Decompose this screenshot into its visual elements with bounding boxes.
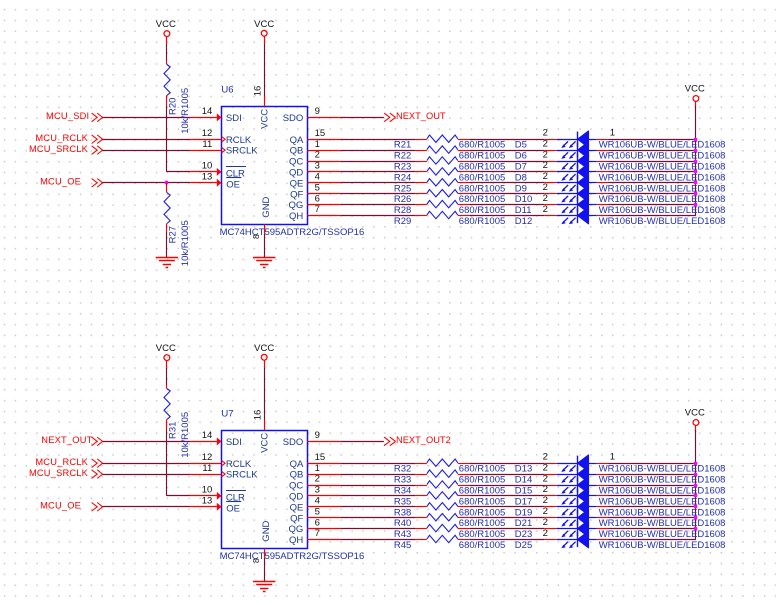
svg-text:2: 2: [315, 150, 320, 161]
svg-text:WR106UB-W/BLUE/LED1608: WR106UB-W/BLUE/LED1608: [599, 162, 726, 173]
pin 1 QB stub: [307, 139, 340, 151]
svg-text:9: 9: [315, 106, 320, 117]
svg-text:NEXT_OUT: NEXT_OUT: [396, 111, 446, 121]
svg-text:SDI: SDI: [226, 113, 242, 124]
LED D10 WR106UB-W/BLUE/LED1608: [515, 182, 726, 205]
resistor R26 680/R1005: [394, 190, 505, 206]
svg-text:680/R1005: 680/R1005: [459, 162, 505, 173]
svg-text:MCU_RCLK: MCU_RCLK: [35, 133, 88, 143]
junction (LED bus): [694, 516, 698, 520]
wire D11 to VCC bus: [609, 204, 696, 206]
svg-text:680/R1005: 680/R1005: [459, 151, 505, 162]
svg-text:D11: D11: [515, 205, 532, 216]
wire MCU_SRCLK: [102, 150, 189, 152]
wire VCC bus vertical: [695, 430, 697, 540]
pin name QC: [289, 157, 303, 168]
svg-text:680/R1005: 680/R1005: [459, 216, 505, 227]
svg-text:16: 16: [253, 410, 264, 421]
svg-text:2: 2: [543, 506, 548, 517]
svg-text:9: 9: [315, 430, 320, 441]
wire R22 to D6: [470, 150, 544, 152]
ground (R27): [156, 258, 178, 268]
junction (LED bus): [694, 138, 698, 142]
svg-text:WR106UB-W/BLUE/LED1608: WR106UB-W/BLUE/LED1608: [599, 140, 726, 151]
wire R29 to D12: [470, 215, 544, 217]
LED D17 WR106UB-W/BLUE/LED1608: [515, 484, 726, 507]
pin name RCLK: [226, 459, 252, 470]
pin name SRCLK: [226, 146, 258, 157]
resistor R43 680/R1005: [394, 524, 505, 540]
pin name QD: [289, 168, 303, 179]
svg-text:2: 2: [543, 473, 548, 484]
svg-text:2: 2: [543, 204, 548, 215]
pin 4 QE stub: [307, 172, 340, 183]
svg-text:D17: D17: [515, 496, 532, 507]
svg-text:680/R1005: 680/R1005: [459, 464, 505, 475]
svg-text:VCC: VCC: [685, 84, 705, 95]
svg-text:QE: QE: [290, 502, 304, 513]
svg-text:1: 1: [315, 463, 320, 474]
wire QB to R33: [340, 474, 415, 476]
svg-text:680/R1005: 680/R1005: [459, 540, 505, 551]
svg-text:10k/R1005: 10k/R1005: [180, 88, 191, 134]
wire pin 8 to ground: [264, 234, 266, 257]
svg-text:WR106UB-W/BLUE/LED1608: WR106UB-W/BLUE/LED1608: [599, 216, 726, 227]
pin 7 QH stub: [307, 528, 340, 539]
wire MCU_SRCLK: [102, 474, 189, 476]
wire D25 to VCC bus: [609, 539, 696, 541]
wire D8 to VCC bus: [609, 171, 696, 173]
svg-text:2: 2: [543, 462, 548, 473]
pin 6 QG stub: [307, 193, 340, 204]
pin 6 QG stub: [307, 517, 340, 528]
svg-text:11: 11: [202, 463, 212, 474]
pin 2 QC stub: [307, 150, 340, 162]
svg-text:WR106UB-W/BLUE/LED1608: WR106UB-W/BLUE/LED1608: [599, 205, 726, 216]
pin 3 QD stub: [307, 161, 340, 172]
svg-text:QH: QH: [289, 211, 303, 222]
svg-text:U6: U6: [221, 84, 233, 95]
svg-text:R31: R31: [167, 422, 178, 439]
svg-text:R20: R20: [167, 98, 178, 115]
wire R24 to D8: [470, 171, 544, 173]
junction (OE / pulldown): [165, 181, 169, 185]
svg-text:WR106UB-W/BLUE/LED1608: WR106UB-W/BLUE/LED1608: [599, 183, 726, 194]
pin name QH: [289, 535, 303, 546]
pin 8 GND stub: [252, 548, 265, 563]
LED D8 WR106UB-W/BLUE/LED1608: [515, 160, 726, 183]
pin 16 VCC stub: [253, 86, 265, 107]
svg-text:680/R1005: 680/R1005: [459, 194, 505, 205]
svg-text:SDO: SDO: [283, 113, 304, 124]
IC U6 MC74HCT595ADTR2G/TSSOP16: [220, 84, 365, 238]
wire R23 to D7: [470, 161, 544, 163]
svg-text:QF: QF: [290, 189, 303, 200]
pin 11 SRCLK stub: [190, 139, 226, 153]
junction (LED bus): [694, 494, 698, 498]
svg-text:R38: R38: [394, 507, 411, 518]
wire D23 to VCC bus: [609, 528, 696, 530]
wire QE to R25: [340, 182, 415, 184]
resistor R32 680/R1005: [394, 459, 505, 475]
wire QH to R29: [340, 215, 415, 217]
wire D6 to VCC bus: [609, 150, 696, 152]
svg-text:2: 2: [543, 128, 548, 139]
pin name SDI: [226, 437, 242, 448]
svg-text:WR106UB-W/BLUE/LED1608: WR106UB-W/BLUE/LED1608: [599, 151, 726, 162]
svg-text:MCU_SRCLK: MCU_SRCLK: [29, 468, 89, 478]
pin 15 QA stub: [307, 452, 340, 464]
resistor R28 680/R1005: [394, 200, 505, 216]
svg-text:D13: D13: [515, 464, 532, 475]
resistor R45 680/R1005: [394, 535, 505, 551]
pin 5 QF stub: [307, 182, 340, 193]
svg-text:7: 7: [315, 204, 320, 215]
svg-text:6: 6: [315, 193, 320, 204]
wire R25 to D9: [470, 182, 544, 184]
pin name VCC (rotated): [260, 433, 271, 453]
svg-text:WR106UB-W/BLUE/LED1608: WR106UB-W/BLUE/LED1608: [599, 475, 726, 486]
wire D19 to VCC bus: [609, 506, 696, 508]
junction (LED bus): [694, 473, 698, 477]
svg-text:D10: D10: [515, 194, 532, 205]
svg-text:QC: QC: [289, 481, 303, 492]
pin 16 VCC stub: [253, 410, 265, 431]
pin name RCLK: [226, 135, 252, 146]
wire QF to R40: [340, 517, 415, 519]
resistor R34 680/R1005: [394, 481, 505, 497]
svg-text:QB: QB: [290, 470, 304, 481]
wire D12 to VCC bus: [609, 215, 696, 217]
wire D21 to VCC bus: [609, 517, 696, 519]
pin 11 SRCLK stub: [190, 463, 226, 477]
svg-text:R32: R32: [394, 464, 411, 475]
wire QH to R45: [340, 539, 415, 541]
svg-text:16: 16: [253, 86, 264, 97]
svg-text:5: 5: [315, 182, 320, 193]
svg-text:D9: D9: [515, 183, 527, 194]
svg-text:R27: R27: [168, 226, 179, 243]
svg-text:2: 2: [543, 138, 548, 149]
pin name GND (rotated): [261, 196, 272, 217]
port MCU_SRCLK: [29, 144, 103, 155]
junction (LED bus): [694, 527, 698, 531]
wire R32 to D13: [470, 463, 544, 465]
pin name QD: [289, 492, 303, 503]
wire R34 to D15: [470, 485, 544, 487]
wire SDO to port NEXT_OUT: [340, 117, 384, 119]
pin name QG: [289, 200, 304, 211]
svg-text:QB: QB: [290, 146, 304, 157]
LED D23 WR106UB-W/BLUE/LED1608: [515, 517, 726, 540]
svg-text:R28: R28: [394, 205, 411, 216]
svg-text:WR106UB-W/BLUE/LED1608: WR106UB-W/BLUE/LED1608: [599, 518, 726, 529]
svg-text:QG: QG: [289, 200, 304, 211]
port NEXT_OUT: [384, 111, 446, 122]
power symbol VCC (R31 pullup): [156, 343, 176, 368]
svg-text:12: 12: [202, 128, 213, 139]
junction (LED bus): [694, 160, 698, 164]
junction (LED bus): [694, 192, 698, 196]
svg-text:WR106UB-W/BLUE/LED1608: WR106UB-W/BLUE/LED1608: [599, 464, 726, 475]
svg-text:4: 4: [315, 496, 320, 507]
svg-text:R33: R33: [394, 475, 411, 486]
wire QC to R34: [340, 485, 415, 487]
svg-text:2: 2: [543, 484, 548, 495]
pin 9 SDO stub: [307, 106, 340, 117]
svg-text:MCU_RCLK: MCU_RCLK: [35, 457, 88, 467]
svg-text:13: 13: [202, 496, 213, 507]
IC U7 MC74HCT595ADTR2G/TSSOP16: [220, 408, 365, 562]
svg-text:R26: R26: [394, 194, 411, 205]
svg-text:QF: QF: [290, 513, 303, 524]
svg-text:QD: QD: [289, 168, 303, 179]
svg-text:QE: QE: [290, 178, 304, 189]
ground (IC): [253, 582, 275, 592]
port MCU_RCLK: [35, 457, 102, 468]
wire QE to R38: [340, 506, 415, 508]
svg-text:GND: GND: [261, 196, 272, 217]
svg-text:WR106UB-W/BLUE/LED1608: WR106UB-W/BLUE/LED1608: [599, 172, 726, 183]
svg-text:8: 8: [252, 558, 261, 563]
pin name OE (active low): [226, 502, 241, 515]
pin name QB: [290, 470, 304, 481]
wire R35 to D17: [470, 495, 544, 497]
wire D7 to VCC bus: [609, 161, 696, 163]
port MCU_SRCLK: [29, 468, 103, 479]
pin 1 QB stub: [307, 463, 340, 475]
wire R21 to D5: [470, 139, 544, 141]
wire QG to R28: [340, 204, 415, 206]
svg-text:10k/R1005: 10k/R1005: [180, 220, 191, 266]
wire R40 to D21: [470, 517, 544, 519]
LED D5 WR106UB-W/BLUE/LED1608: [515, 128, 726, 151]
wire SDO to port NEXT_OUT2: [340, 441, 384, 443]
LED D7 WR106UB-W/BLUE/LED1608: [515, 149, 726, 172]
resistor R33 680/R1005: [394, 470, 505, 486]
svg-text:R22: R22: [394, 151, 411, 162]
resistor R31 10k/R1005: [164, 385, 191, 458]
svg-text:8: 8: [252, 234, 261, 239]
pin 14 SDI stub: [190, 106, 222, 121]
pin 12 RCLK stub: [190, 128, 226, 142]
pin 14 SDI stub: [190, 430, 222, 445]
svg-text:R40: R40: [394, 518, 411, 529]
pin 4 QE stub: [307, 496, 340, 507]
svg-text:QD: QD: [289, 492, 303, 503]
svg-text:OE: OE: [226, 179, 240, 190]
svg-text:QG: QG: [289, 524, 304, 535]
svg-text:RCLK: RCLK: [226, 459, 252, 470]
svg-text:2: 2: [543, 452, 548, 463]
junction (LED bus): [694, 462, 698, 466]
wire D9 to VCC bus: [609, 182, 696, 184]
pin name QF: [290, 189, 303, 200]
wire QA to R32: [340, 463, 415, 465]
svg-text:WR106UB-W/BLUE/LED1608: WR106UB-W/BLUE/LED1608: [599, 486, 726, 497]
LED D6 WR106UB-W/BLUE/LED1608: [515, 138, 726, 161]
svg-text:2: 2: [543, 171, 548, 182]
pin name GND (rotated): [261, 520, 272, 541]
LED D15 WR106UB-W/BLUE/LED1608: [515, 473, 726, 496]
svg-text:11: 11: [202, 139, 212, 150]
port MCU_SDI: [46, 111, 103, 122]
LED D13 WR106UB-W/BLUE/LED1608: [515, 452, 726, 475]
junction (LED bus): [694, 203, 698, 207]
wire D10 to VCC bus: [609, 193, 696, 195]
svg-text:2: 2: [543, 193, 548, 204]
wire QF to R26: [340, 193, 415, 195]
resistor R35 680/R1005: [394, 492, 505, 508]
resistor R25 680/R1005: [394, 179, 505, 195]
pin name SDO: [283, 113, 304, 124]
svg-text:QA: QA: [290, 459, 304, 470]
wire MCU_RCLK: [102, 139, 189, 141]
svg-text:680/R1005: 680/R1005: [459, 529, 505, 540]
pin name OE (active low): [226, 178, 241, 191]
svg-text:MCU_SDI: MCU_SDI: [46, 111, 89, 121]
power symbol VCC (LED anodes): [685, 84, 705, 109]
svg-text:680/R1005: 680/R1005: [459, 172, 505, 183]
svg-text:1: 1: [315, 139, 320, 150]
svg-text:SRCLK: SRCLK: [226, 470, 258, 481]
wire D5 to VCC bus: [609, 139, 696, 141]
wire VCC to R31: [166, 368, 168, 385]
wire VCC to pin 16: [264, 367, 266, 420]
svg-text:R29: R29: [394, 216, 411, 227]
svg-text:2: 2: [543, 182, 548, 193]
wire QB to R22: [340, 150, 415, 152]
LED D12 WR106UB-W/BLUE/LED1608: [515, 204, 726, 227]
pin name QE: [290, 178, 304, 189]
svg-text:680/R1005: 680/R1005: [459, 183, 505, 194]
svg-text:WR106UB-W/BLUE/LED1608: WR106UB-W/BLUE/LED1608: [599, 540, 726, 551]
pin name QG: [289, 524, 304, 535]
port MCU_RCLK: [35, 133, 102, 144]
svg-text:R24: R24: [394, 172, 411, 183]
LED D11 WR106UB-W/BLUE/LED1608: [515, 193, 726, 216]
svg-text:WR106UB-W/BLUE/LED1608: WR106UB-W/BLUE/LED1608: [599, 529, 726, 540]
svg-text:SRCLK: SRCLK: [226, 146, 258, 157]
svg-text:R34: R34: [394, 486, 411, 497]
LED D19 WR106UB-W/BLUE/LED1608: [515, 495, 726, 518]
svg-text:WR106UB-W/BLUE/LED1608: WR106UB-W/BLUE/LED1608: [599, 496, 726, 507]
wire MCU_OE: [102, 182, 189, 184]
wire R33 to D14: [470, 474, 544, 476]
svg-text:R43: R43: [394, 529, 411, 540]
svg-text:5: 5: [315, 506, 320, 517]
resistor R29 680/R1005: [394, 211, 505, 227]
svg-text:VCC: VCC: [260, 109, 271, 129]
svg-text:10k/R1005: 10k/R1005: [180, 412, 191, 458]
wire VCC bus vertical: [695, 106, 697, 216]
svg-text:VCC: VCC: [156, 19, 176, 30]
pin name QB: [290, 146, 304, 157]
pin name QA: [290, 459, 304, 470]
power symbol VCC (pin 16): [254, 19, 274, 43]
power symbol VCC (R20 pullup): [156, 19, 176, 44]
svg-text:D7: D7: [515, 162, 527, 173]
pin 13 OE stub: [190, 172, 222, 187]
svg-text:R21: R21: [394, 140, 411, 151]
svg-text:6: 6: [315, 517, 320, 528]
svg-text:RCLK: RCLK: [226, 135, 252, 146]
svg-text:2: 2: [543, 495, 548, 506]
svg-text:2: 2: [543, 528, 548, 539]
wire QD to R35: [340, 495, 415, 497]
svg-text:R35: R35: [394, 496, 411, 507]
svg-text:2: 2: [543, 160, 548, 171]
wire QG to R43: [340, 528, 415, 530]
port NEXT_OUT: [41, 435, 102, 446]
svg-text:MCU_OE: MCU_OE: [40, 501, 81, 511]
svg-text:QA: QA: [290, 135, 304, 146]
port NEXT_OUT2: [384, 435, 451, 446]
wire R45 to D25: [470, 539, 544, 541]
svg-text:1: 1: [610, 452, 615, 463]
svg-text:4: 4: [315, 172, 320, 183]
svg-text:3: 3: [315, 161, 320, 172]
pin 9 SDO stub: [307, 430, 340, 441]
wire D15 to VCC bus: [609, 485, 696, 487]
pin name QH: [289, 211, 303, 222]
svg-text:SDO: SDO: [283, 437, 304, 448]
svg-text:D23: D23: [515, 529, 532, 540]
pin 15 QA stub: [307, 128, 340, 140]
svg-text:680/R1005: 680/R1005: [459, 475, 505, 486]
svg-text:680/R1005: 680/R1005: [459, 518, 505, 529]
LED D14 WR106UB-W/BLUE/LED1608: [515, 462, 726, 485]
svg-text:D6: D6: [515, 151, 527, 162]
svg-text:680/R1005: 680/R1005: [459, 507, 505, 518]
svg-text:R25: R25: [394, 183, 411, 194]
resistor R21 680/R1005: [394, 135, 505, 151]
pin 5 QF stub: [307, 506, 340, 517]
pin name SDO: [283, 437, 304, 448]
svg-text:D8: D8: [515, 172, 527, 183]
svg-text:MCU_SRCLK: MCU_SRCLK: [29, 144, 89, 154]
wire R28 to D11: [470, 204, 544, 206]
pin name SDI: [226, 113, 242, 124]
svg-text:VCC: VCC: [254, 343, 274, 354]
wire D14 to VCC bus: [609, 474, 696, 476]
power symbol VCC (LED anodes): [685, 408, 705, 433]
svg-text:2: 2: [543, 517, 548, 528]
port MCU_OE: [40, 177, 102, 188]
svg-text:680/R1005: 680/R1005: [459, 496, 505, 507]
svg-text:GND: GND: [261, 520, 272, 541]
wire D13 to VCC bus: [609, 463, 696, 465]
svg-text:QC: QC: [289, 157, 303, 168]
svg-text:MCU_OE: MCU_OE: [40, 177, 81, 187]
svg-text:D14: D14: [515, 475, 532, 486]
svg-text:R23: R23: [394, 162, 411, 173]
svg-text:D12: D12: [515, 216, 532, 227]
wire R27 to ground: [166, 232, 168, 257]
wire VCC to R20: [166, 44, 168, 61]
LED D25 WR106UB-W/BLUE/LED1608: [515, 528, 726, 551]
svg-text:VCC: VCC: [260, 433, 271, 453]
svg-text:WR106UB-W/BLUE/LED1608: WR106UB-W/BLUE/LED1608: [599, 507, 726, 518]
svg-text:VCC: VCC: [254, 19, 274, 30]
resistor R20 10k/R1005: [164, 61, 191, 134]
pin 12 RCLK stub: [190, 452, 226, 466]
svg-text:SDI: SDI: [226, 437, 242, 448]
pin 2 QC stub: [307, 474, 340, 486]
svg-text:14: 14: [202, 106, 213, 117]
svg-text:D21: D21: [515, 518, 532, 529]
wire R20 to pin 10 CLR: [167, 106, 190, 172]
